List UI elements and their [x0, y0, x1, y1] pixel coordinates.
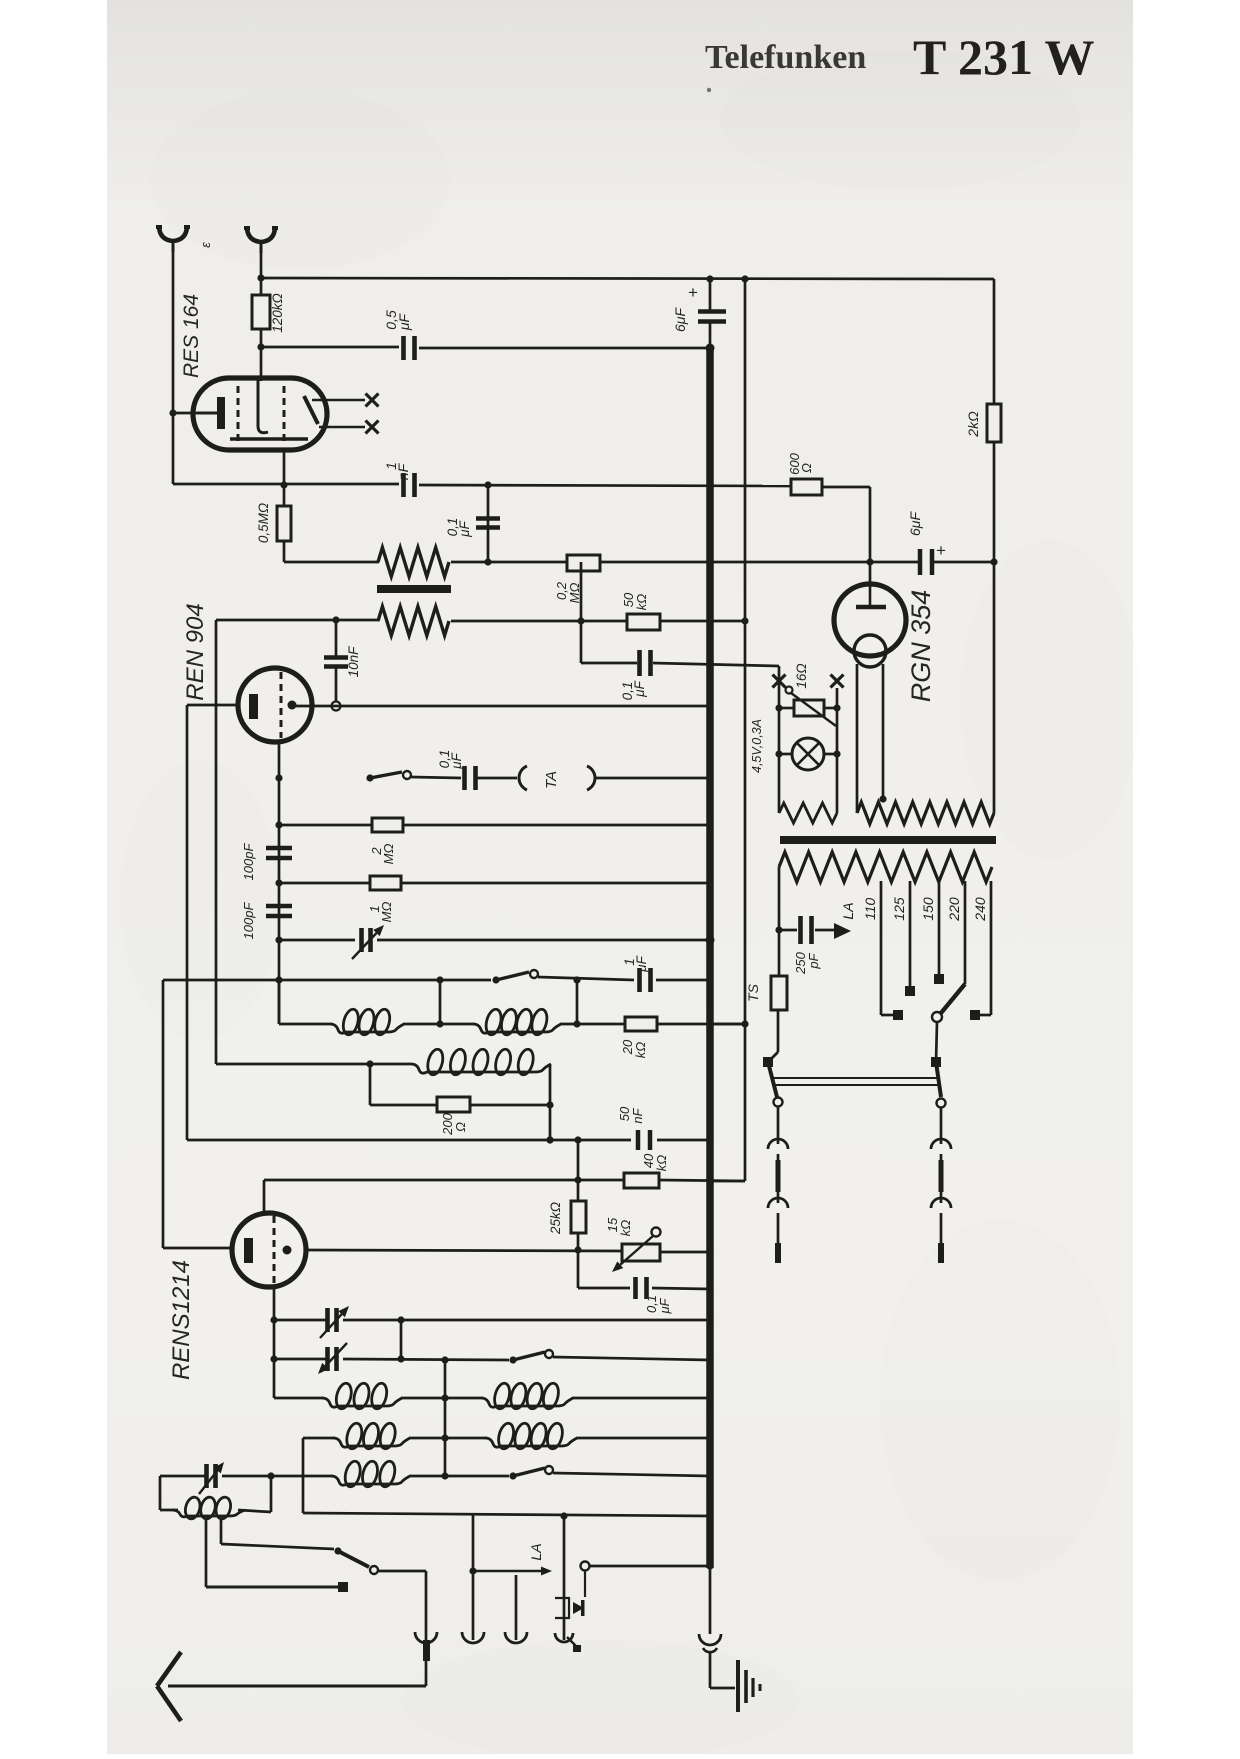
svg-text:RGN 354: RGN 354 — [906, 590, 936, 703]
trimmer capacitor antenna — [204, 1464, 209, 1488]
wire link 50nF/40k — [577, 1140, 580, 1201]
svg-text:100pF: 100pF — [241, 843, 256, 881]
wire 0,2M link vertical — [580, 562, 583, 663]
coil RF 2b — [485, 1438, 577, 1447]
svg-text:2kΩ: 2kΩ — [965, 411, 981, 438]
resistor 0,5 MOhm — [283, 485, 286, 506]
wire link band rails — [444, 1360, 447, 1476]
svg-text:kΩ: kΩ — [618, 1220, 633, 1237]
resistor (hum pot) — [779, 803, 837, 823]
wire AVC rail — [163, 979, 491, 982]
dial lamp 4,5V 0,3A — [779, 753, 792, 756]
svg-text:6μF: 6μF — [907, 511, 923, 536]
REN904 grid (dashed) — [280, 672, 283, 738]
bus junctions — [706, 481, 713, 488]
RES164 heater lead lower — [319, 426, 365, 429]
wire top rail — [261, 278, 994, 279]
wire RF row3 — [160, 1475, 206, 1478]
resistor 600 Ohm — [791, 479, 822, 495]
capacitor 250 pF — [779, 929, 797, 932]
mains switch left pole — [763, 1057, 773, 1067]
wire bus stub upper — [710, 1023, 745, 1026]
wire 2k to rail — [993, 442, 996, 562]
second supply line — [744, 279, 747, 1181]
capacitor 0,1 uF (heater) — [637, 650, 642, 676]
svg-text:μF: μF — [396, 312, 412, 331]
svg-text:μF: μF — [657, 1297, 672, 1314]
wire 6uF rail right — [934, 561, 993, 564]
bus to ground — [709, 1566, 712, 1634]
capacitor 50 nF — [636, 1130, 641, 1150]
socket antenna — [415, 1632, 437, 1643]
switch (TA) — [366, 774, 373, 781]
tap 220 with selector lever — [964, 881, 967, 984]
wire REN904 grid down — [278, 742, 281, 1024]
socket 3 — [515, 1575, 518, 1640]
coil IF 1a — [330, 1024, 404, 1033]
heater terminal X lower — [366, 421, 379, 434]
capacitor 0,5 uF — [261, 346, 399, 349]
switch mechanical link — [772, 1077, 938, 1079]
RES164 grid cap electrode — [258, 380, 268, 433]
svg-text:MΩ: MΩ — [381, 844, 396, 865]
svg-text:16Ω: 16Ω — [794, 663, 809, 688]
RGN354 filament loop — [854, 635, 886, 667]
coil RF 3 — [331, 1476, 410, 1485]
fuse TS — [778, 930, 781, 976]
pickup jack cluster — [563, 1516, 566, 1640]
svg-text:110: 110 — [862, 898, 878, 921]
capacitor 1 uF — [637, 968, 642, 992]
svg-text:10nF: 10nF — [346, 646, 361, 678]
wire grid leak rail — [173, 483, 399, 486]
RES164 heater lead upper — [312, 399, 365, 402]
svg-text:TA: TA — [543, 771, 560, 789]
svg-text:25kΩ: 25kΩ — [548, 1202, 563, 1235]
tube REN 904 — [238, 668, 312, 742]
svg-text:μF: μF — [634, 955, 649, 972]
svg-text:220: 220 — [946, 897, 962, 922]
svg-text:125: 125 — [891, 897, 907, 921]
svg-text:Ω: Ω — [799, 463, 814, 473]
resistor 40 kOhm — [624, 1173, 659, 1188]
switch (band 1) — [509, 1356, 516, 1363]
resistor 20 kOhm — [625, 1017, 657, 1031]
switch (wave) — [492, 976, 499, 983]
wire osc right — [549, 1064, 552, 1140]
trimmer capacitor 1 — [274, 1319, 326, 1322]
svg-text:kΩ: kΩ — [633, 1042, 648, 1059]
svg-text:Telefunken: Telefunken — [705, 39, 866, 76]
heater X left — [773, 675, 786, 688]
wire RF row2 — [303, 1437, 335, 1440]
REN904 cathode — [249, 694, 258, 719]
wire left column B — [215, 620, 218, 1064]
svg-text:pF: pF — [806, 952, 821, 969]
wire antenna 2 stem — [260, 246, 263, 296]
wire row2 drop — [302, 1438, 305, 1513]
variable capacitor (regen) — [279, 939, 355, 942]
svg-text:ε: ε — [198, 242, 213, 248]
svg-text:0,5MΩ: 0,5MΩ — [256, 503, 271, 543]
svg-text:RES 164: RES 164 — [180, 294, 203, 378]
REN904 anode — [288, 701, 297, 710]
wire anode rail — [295, 705, 710, 708]
tap 150 — [938, 881, 941, 975]
phono terminal ring — [581, 1562, 590, 1571]
arrow LA (bottom) — [473, 1570, 541, 1572]
resistor 120 kOhm — [252, 295, 270, 329]
wire left AVC vertical — [162, 980, 165, 1248]
RES164 cathode — [197, 412, 219, 415]
capacitor 0,1 uF (grid) — [487, 485, 490, 562]
wire link AVC to IF — [439, 980, 442, 1024]
wire IF rail — [278, 980, 281, 1024]
resistor 2 kOhm — [987, 404, 1001, 442]
wire 50nF rail — [187, 1139, 631, 1142]
heater X right — [831, 675, 844, 688]
svg-text:+: + — [936, 541, 946, 560]
svg-text:MΩ: MΩ — [379, 902, 394, 923]
wire osc rail — [216, 1063, 411, 1066]
RES164 anode plate — [304, 396, 318, 424]
switch (antenna) — [334, 1547, 341, 1554]
potentiometer zigzag upper — [378, 548, 449, 577]
tap 125 — [909, 881, 912, 987]
wire 120k to grid cap — [260, 329, 263, 381]
mains cord right — [940, 1107, 943, 1144]
transformer heater winding — [857, 802, 994, 824]
resistor 1 MOhm — [279, 882, 370, 885]
resistor 15 kOhm variable — [622, 1244, 660, 1261]
transformer primary winding — [779, 852, 992, 882]
capacitor 1 nF — [401, 473, 406, 497]
heater terminal X upper — [366, 394, 379, 407]
svg-text:kΩ: kΩ — [634, 594, 649, 611]
wire heater tap — [653, 663, 779, 666]
svg-text:TS: TS — [745, 983, 761, 1002]
wire RES164 grid down — [283, 450, 286, 485]
svg-text:6μF: 6μF — [672, 307, 688, 332]
arrow LA (mains aerial) — [834, 923, 851, 939]
RES164 grid 2 (dashed) — [283, 386, 286, 442]
svg-text:kΩ: kΩ — [654, 1155, 669, 1172]
resistor 50 kOhm — [627, 614, 660, 630]
wire cathode rail right — [306, 1250, 622, 1251]
tube RES 164 envelope — [193, 378, 327, 450]
wire coil tap left — [205, 1518, 208, 1587]
svg-text:Ω: Ω — [453, 1122, 468, 1132]
svg-text:LA: LA — [528, 1543, 544, 1560]
capacitor 100 pF upper — [266, 846, 292, 851]
svg-text:240: 240 — [972, 897, 988, 922]
wire volume pot top — [284, 561, 379, 564]
resistor 25 kOhm — [571, 1201, 586, 1233]
mains cord left — [777, 1106, 780, 1144]
coil antenna — [172, 1510, 245, 1517]
wire bus stub lower — [710, 1180, 745, 1183]
wire link switch to IF — [576, 980, 579, 1024]
RES164 filament bar — [230, 437, 308, 441]
main chassis bus — [706, 348, 714, 1568]
capacitor 6 uF electrolytic — [918, 549, 923, 575]
junction ring 10nF — [332, 702, 341, 711]
coil RF 1b — [481, 1398, 573, 1407]
svg-text:T 231 W: T 231 W — [913, 29, 1095, 85]
antenna terminal 2 — [247, 228, 275, 242]
main bus wire — [709, 279, 712, 310]
capacitor 0,1 uF (cathode) — [578, 1287, 630, 1290]
svg-text:nF: nF — [395, 462, 411, 480]
ground symbol — [736, 1660, 740, 1712]
resistor 200 Ohm — [369, 1064, 372, 1105]
antenna coupling loop — [159, 1476, 162, 1510]
wire RF row1 — [274, 1397, 324, 1400]
RES164 grid 1 (dashed) — [237, 386, 240, 442]
coil oscillator — [411, 1064, 551, 1073]
wire filament lead right — [882, 664, 885, 799]
switch (band 2) — [509, 1472, 516, 1479]
tube RGN 354 — [834, 584, 906, 656]
antenna terminal 1 — [159, 227, 187, 241]
svg-text:μF: μF — [632, 680, 647, 697]
wire RENS cathode rail — [163, 1247, 232, 1250]
coil IF 1b — [473, 1024, 561, 1033]
RENS1214 grid (dashed) — [273, 1216, 276, 1284]
capacitor 100 pF lower — [266, 904, 292, 909]
capacitor 6 uF + (bus) — [698, 309, 726, 314]
wire 600 ohm to RGN anode — [822, 486, 870, 489]
wire cathode vertical — [186, 705, 189, 1140]
trimmer capacitor 2 — [274, 1358, 326, 1361]
svg-text:100pF: 100pF — [241, 902, 256, 940]
svg-text:RENS1214: RENS1214 — [168, 1260, 195, 1380]
svg-text:+: + — [688, 283, 698, 302]
svg-text:4,5V,0,3A: 4,5V,0,3A — [750, 719, 764, 773]
socket 2 — [472, 1571, 475, 1640]
mains switch right pole — [931, 1057, 941, 1067]
svg-text:μF: μF — [449, 752, 464, 769]
capacitor 0,1 uF (TA) — [462, 766, 467, 790]
tap 240 — [990, 881, 993, 1015]
wire coil tap right — [220, 1518, 223, 1544]
resistor 2 MOhm — [279, 824, 372, 827]
tube RENS 1214 — [232, 1213, 306, 1287]
svg-text:nF: nF — [630, 1107, 645, 1123]
svg-text:LA: LA — [840, 902, 856, 919]
RENS1214 anode — [283, 1246, 292, 1255]
wire filament lead left — [856, 664, 859, 813]
coil RF 1a — [322, 1398, 402, 1407]
potentiometer slider bar — [377, 585, 451, 593]
wire right vertical to transformer — [993, 562, 996, 813]
svg-text:120kΩ: 120kΩ — [270, 293, 285, 333]
wire right vertical top — [993, 279, 996, 404]
wire to RES164 cathode — [173, 412, 198, 415]
wire RENS anode top lead — [263, 1180, 266, 1213]
potentiometer zigzag lower — [378, 607, 449, 636]
tap 110 — [880, 881, 883, 1015]
resistor 0,2 MOhm — [567, 555, 600, 571]
wire 40k rail — [264, 1179, 624, 1182]
wire REN904 cathode lead — [187, 704, 238, 707]
transformer core — [780, 836, 996, 844]
selector pivot — [932, 1012, 942, 1022]
svg-text:150: 150 — [920, 897, 936, 921]
wire link trimmer rails — [400, 1320, 403, 1359]
RGN354 anode bar — [856, 605, 886, 610]
wire lamp branch right — [836, 688, 839, 813]
wire lamp branch left — [778, 666, 781, 813]
svg-text:REN 904: REN 904 — [182, 603, 209, 700]
antenna arrow — [168, 1685, 426, 1688]
wire RENS grid down — [273, 1287, 276, 1398]
wire primary left end — [778, 867, 781, 930]
capacitor 10 nF — [335, 621, 338, 657]
wire earth tap — [472, 1514, 475, 1571]
RENS1214 cathode — [244, 1238, 253, 1263]
coil RF 2a — [333, 1438, 410, 1447]
pickup jack TA — [519, 766, 527, 790]
wire zigzag to rail — [451, 561, 918, 564]
rheostat 16 Ohm — [779, 707, 794, 710]
svg-text:μF: μF — [457, 520, 472, 537]
wire rail to 600 ohm — [419, 485, 791, 486]
wire feedback rail — [216, 619, 379, 622]
wire antenna 1 down — [172, 248, 175, 484]
